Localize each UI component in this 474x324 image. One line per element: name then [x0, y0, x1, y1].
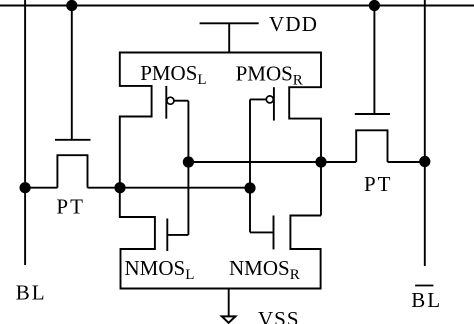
svg-text:BL: BL — [16, 281, 47, 305]
svg-text:BL: BL — [411, 288, 442, 312]
wire: VDD stub to PMOS source box — [228, 23, 230, 52]
transistor PT (left) channel bump — [57, 155, 87, 188]
junction dot: right gate column / node Q wire — [244, 182, 255, 193]
svg-text:VSS: VSS — [258, 307, 300, 324]
svg-text:VDD: VDD — [269, 12, 318, 36]
transistor NMOS_R gate bar — [273, 216, 275, 250]
transistor PMOS_R gate bubble — [266, 96, 273, 103]
wire: node Q horizontal (BL side segment) — [25, 187, 57, 189]
ground arrow VSS (hollow triangle) — [222, 316, 236, 322]
wire: right PT gate stub from WL — [373, 6, 375, 115]
wire: node Qbar horizontal (BLbar side segment) — [388, 161, 425, 163]
svg-text:NMOSL: NMOSL — [125, 256, 195, 283]
transistor NMOS_L gate bar — [166, 219, 168, 252]
junction dot: BL / node Q wire — [20, 182, 31, 193]
transistor PT (right) gate bar — [355, 113, 390, 115]
junction dot: right drain column / node Qbar wire — [315, 156, 326, 167]
wire: PMOS source box outline with PMOS_L / PMOS_R source plates and drain columns — [120, 53, 321, 216]
junction dot: left drain column / node Q wire — [114, 182, 125, 193]
wire: right inverter gate column (node Q) — [249, 99, 251, 232]
transistor NMOS_L gate wire — [167, 234, 188, 236]
transistor PMOS_R gate bar — [273, 87, 275, 120]
svg-text:PMOSR: PMOSR — [236, 61, 303, 88]
transistor NMOS_R gate wire — [250, 231, 274, 233]
wire: left PT gate stub from WL — [71, 6, 73, 140]
wire: node Q horizontal (to right inverter gates) — [88, 187, 251, 189]
label BLbar overline — [415, 285, 433, 287]
VDD rail — [200, 22, 259, 24]
svg-text:PT: PT — [56, 195, 85, 219]
bit line BLbar wire — [424, 0, 426, 266]
transistor PMOS_L gate bar — [165, 86, 167, 119]
svg-text:NMOSR: NMOSR — [229, 256, 300, 283]
junction dot: WL / right PT gate — [369, 0, 380, 11]
junction dot: WL / left PT gate — [66, 0, 77, 11]
wire: NMOS source box outline with NMOS_L / NMOS_R source plates and drain columns — [120, 188, 321, 289]
junction dot: left gate column / node Qbar wire — [183, 156, 194, 167]
wire: VSS stub — [228, 289, 230, 317]
wire: left inverter gate column (node Qbar) — [187, 101, 189, 235]
junction dot: BLbar / node Qbar wire — [419, 156, 430, 167]
transistor PMOS_L gate wire — [174, 100, 189, 102]
transistor PT (right) channel bump — [356, 130, 387, 162]
svg-text:PT: PT — [364, 172, 393, 196]
bit line BL wire — [24, 0, 26, 265]
wire: node Qbar horizontal (to left inverter gates) — [188, 161, 356, 163]
transistor PMOS_L gate bubble — [167, 97, 174, 104]
word line WL — [0, 5, 474, 7]
svg-text:PMOSL: PMOSL — [140, 61, 206, 88]
transistor PMOS_R gate wire — [250, 98, 267, 100]
transistor PT (left) gate bar — [55, 139, 91, 141]
